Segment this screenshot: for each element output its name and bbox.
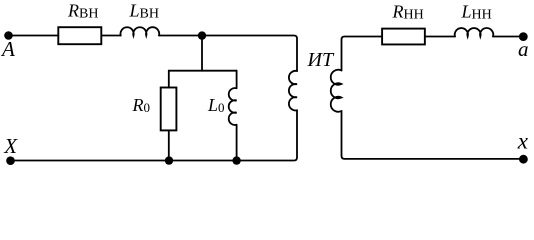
resistor R_BH [58, 27, 101, 44]
svg-text:RВН: RВН [67, 1, 98, 22]
resistor R0 [161, 88, 177, 131]
inductor L0 [229, 88, 237, 125]
terminal A [4, 31, 13, 40]
svg-text:X: X [3, 134, 18, 158]
svg-text:LНН: LНН [461, 2, 492, 23]
terminal x [519, 155, 528, 164]
svg-text:x: x [517, 129, 529, 154]
wire secondary top to R_HH [342, 37, 383, 71]
wire bar to L0 [236, 71, 238, 89]
svg-text:A: A [0, 37, 15, 61]
wire L_BH to node [159, 35, 202, 37]
node (junction dot) [198, 31, 206, 39]
wire R_BH to L_BH [101, 35, 120, 37]
junction dot R0 bottom [165, 156, 173, 164]
wire node down to shunt bar [201, 36, 203, 71]
wire secondary bottom to terminal x [342, 111, 524, 159]
svg-text:L0: L0 [207, 95, 225, 115]
transformer primary winding (IT left) [289, 71, 297, 111]
wire R_HH to L_HH [425, 36, 455, 38]
terminal X [6, 156, 15, 165]
wire bar to R0 [168, 71, 170, 88]
wire R0 to bottom [168, 130, 170, 160]
wire node to transformer primary [202, 36, 297, 72]
svg-text:R0: R0 [132, 95, 151, 115]
svg-text:LВН: LВН [129, 1, 159, 22]
transformer secondary winding (IT right) [331, 70, 342, 112]
svg-text:ИТ: ИТ [307, 49, 335, 71]
wire A to R_BH [9, 35, 59, 37]
inductor L_BH [120, 27, 159, 35]
svg-text:RНН: RНН [392, 2, 424, 23]
bottom wire X to transformer primary [11, 110, 298, 160]
inductor L_HH [455, 28, 494, 36]
shunt bar (top of parallel branch) [169, 70, 237, 72]
svg-text:a: a [518, 37, 529, 61]
wire L_HH to terminal a [493, 36, 523, 38]
terminal a [519, 32, 528, 41]
resistor R_HH [382, 29, 425, 45]
wire L0 to bottom [236, 125, 238, 161]
junction dot L0 bottom [232, 156, 240, 164]
